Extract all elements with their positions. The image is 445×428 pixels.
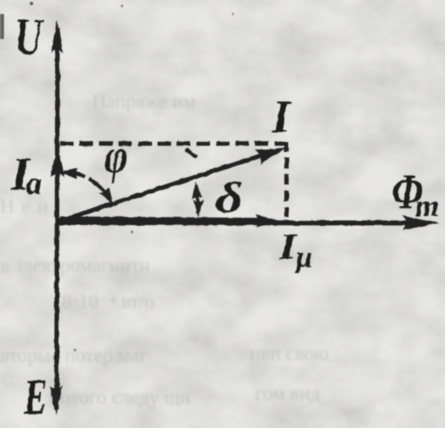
vector I_mu arrowhead (256, 215, 281, 228)
vector I_mu shaft (on the axis) (60, 219, 264, 221)
arrowhead U (up) (51, 20, 63, 53)
vector I shaft (58, 154, 266, 222)
arrowhead Phi_m (right) (402, 216, 439, 231)
delta upper arrowhead (190, 181, 203, 199)
angle delta double arrow shaft (196, 186, 198, 214)
svg-text:φ: φ (105, 128, 128, 183)
dashed vertical projection line (284, 141, 288, 217)
phi arc upper arrowhead (60, 166, 78, 179)
delta lower arrowhead (192, 200, 204, 218)
phi arc lower arrowhead (99, 187, 117, 207)
svg-text:в электромагнитн: в электромагнитн (0, 255, 150, 277)
axis U-E: vertical axis line (57, 28, 58, 410)
svg-text:вторые потер маг: вторые потер маг (0, 345, 147, 367)
svg-text:m: m (415, 188, 439, 223)
svg-text:a: a (26, 165, 42, 201)
svg-text:пви свою: пви свою (250, 343, 329, 365)
axis Phi_m: horizontal axis line (58, 220, 422, 226)
dashed horizontal projection line (60, 141, 288, 145)
svg-text:мотого следу щи: мотого следу щи (48, 387, 191, 409)
svg-text:Напряже им: Напряже им (92, 91, 196, 113)
arrowhead E (down) (50, 386, 62, 416)
stray tick above vector I (187, 151, 196, 157)
scan edge marks (0, 14, 4, 39)
svg-text:8·10⁻⁴ вт/о: 8·10⁻⁴ вт/о (62, 291, 154, 313)
angle phi arc (64, 172, 110, 199)
svg-text:I: I (271, 91, 292, 142)
vector I_a arrowhead (on vertical axis) (51, 148, 65, 177)
vector I arrowhead (255, 140, 289, 164)
svg-text:U: U (15, 8, 44, 65)
svg-text:δ: δ (215, 174, 243, 222)
svg-text:μ: μ (294, 241, 313, 274)
svg-text:гом вид: гом вид (255, 383, 320, 405)
bleed-through text from reverse page (0, 91, 329, 409)
svg-text:E: E (23, 370, 47, 426)
